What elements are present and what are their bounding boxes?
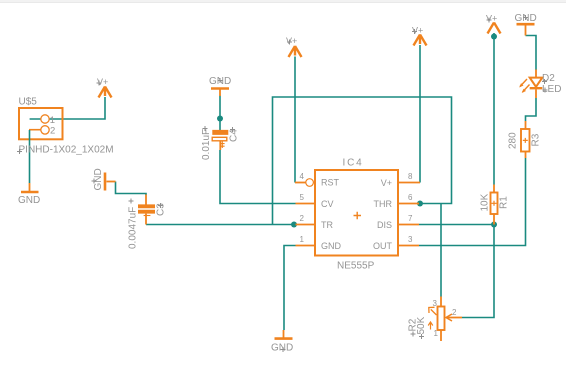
svg-text:4: 4 <box>300 172 305 181</box>
svg-text:DIS: DIS <box>377 220 392 230</box>
svg-text:R1: R1 <box>499 196 510 209</box>
svg-text:GND: GND <box>18 195 40 206</box>
svg-text:7: 7 <box>408 214 413 223</box>
svg-text:0.0047uF: 0.0047uF <box>128 207 139 249</box>
svg-text:2: 2 <box>300 214 305 223</box>
svg-text:CV: CV <box>321 199 334 209</box>
svg-text:V+: V+ <box>486 14 497 24</box>
svg-text:GND: GND <box>93 168 104 190</box>
svg-text:5: 5 <box>300 193 305 202</box>
svg-text:THR: THR <box>374 199 393 209</box>
svg-text:GND: GND <box>271 343 293 354</box>
svg-text:0.01uF: 0.01uF <box>201 129 212 160</box>
svg-text:PINHD-1X02_1X02M: PINHD-1X02_1X02M <box>19 145 114 156</box>
svg-text:GND: GND <box>321 241 342 251</box>
svg-text:NE555P: NE555P <box>337 261 375 272</box>
svg-text:1: 1 <box>50 115 55 126</box>
svg-text:RST: RST <box>321 178 340 188</box>
svg-text:280: 280 <box>508 132 519 149</box>
svg-text:6: 6 <box>408 193 413 202</box>
svg-text:1: 1 <box>434 329 439 338</box>
svg-text:U$5: U$5 <box>19 97 38 108</box>
svg-text:10K: 10K <box>480 193 491 211</box>
svg-text:8: 8 <box>408 172 413 181</box>
svg-text:2: 2 <box>50 126 55 137</box>
svg-text:TR: TR <box>321 220 333 230</box>
svg-text:R3: R3 <box>531 133 542 146</box>
svg-text:V+: V+ <box>381 178 392 188</box>
svg-text:3: 3 <box>433 299 438 308</box>
svg-text:3: 3 <box>408 235 413 244</box>
svg-text:D2: D2 <box>542 73 555 84</box>
svg-text:C4: C4 <box>229 129 240 142</box>
svg-text:OUT: OUT <box>373 241 393 251</box>
svg-text:50K: 50K <box>416 316 427 334</box>
svg-text:V+: V+ <box>286 36 297 46</box>
svg-text:V+: V+ <box>412 26 423 36</box>
svg-text:IC4: IC4 <box>343 158 364 169</box>
svg-text:1: 1 <box>300 235 305 244</box>
svg-text:2: 2 <box>452 308 457 317</box>
